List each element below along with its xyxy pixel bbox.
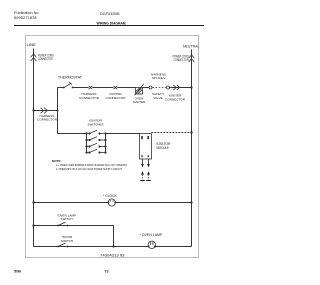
wire to oven igniter [117, 87, 135, 89]
svg-text:5/96: 5/96 [14, 270, 21, 274]
svg-text:CONNECTOR: CONNECTOR [165, 97, 186, 101]
header publication number [14, 11, 40, 20]
ignitor switches ladder left rail [86, 134, 88, 153]
junction lamp drop at door line [112, 245, 114, 247]
svg-text:1. LOWER OVEN BURNER & BROIL B: 1. LOWER OVEN BURNER & BROIL BURNER WILL… [56, 163, 127, 167]
svg-text:CONNECTOR: CONNECTOR [37, 118, 58, 122]
ignitor switch 3 [86, 143, 107, 147]
junction on LINE wire [32, 109, 34, 111]
ignitor switches label [88, 119, 104, 127]
svg-text:MODULE: MODULE [157, 146, 170, 150]
ignitor switch 4 [86, 149, 107, 153]
wire thermostat to harness connector [73, 87, 89, 89]
junction module line at neutral [190, 131, 192, 133]
diagram border [26, 36, 199, 258]
wire switches to ignitor module [106, 133, 140, 135]
wire LINE vertical left [33, 49, 35, 247]
spark electrode leads [143, 159, 149, 164]
svg-text:SPLICES: SPLICES [152, 76, 165, 80]
wire oven lamp switch line [34, 225, 114, 227]
spark gap arrows up [141, 171, 150, 174]
svg-text:THERMOSTAT: THERMOSTAT [58, 75, 82, 79]
note text [52, 159, 127, 171]
ignitor module box [140, 134, 152, 160]
wire module to neutral dashed [152, 132, 192, 134]
svg-text:SWITCHES: SWITCHES [88, 122, 104, 126]
svg-text:DGF332BB: DGF332BB [100, 12, 120, 16]
oven lamp symbol [148, 241, 157, 248]
junction clock line left [32, 201, 34, 203]
svg-text:SWITCH: SWITCH [61, 239, 73, 243]
spark gap arrows down [141, 164, 150, 167]
harness connector chevrons [41, 108, 48, 114]
wire to igniter connector [92, 87, 113, 89]
svg-text:VALVE: VALVE [153, 96, 163, 100]
ignitor switch 1 [86, 130, 107, 134]
svg-text:* OVEN LAMP: * OVEN LAMP [140, 233, 163, 237]
svg-text:NEUTRAL: NEUTRAL [183, 44, 200, 48]
ignitor switch 2 [86, 137, 107, 141]
wire lamp switch drop [113, 226, 115, 247]
electrode dashed stems [143, 175, 149, 180]
ignitor switches ladder right rail [105, 134, 107, 153]
svg-text:CONNECTOR: CONNECTOR [174, 58, 190, 62]
wire ignitor switch feed [58, 133, 87, 135]
igniter connector X [114, 86, 118, 89]
wire door switch line [34, 246, 192, 248]
svg-text:CONNECTOR: CONNECTOR [38, 57, 54, 61]
wire clock line [34, 202, 192, 204]
thermostat [58, 75, 83, 88]
junction lamp switch line at LINE wire [32, 224, 34, 226]
svg-text:SWITCH: SWITCH [60, 217, 72, 221]
svg-text:2. OPERATES ON A 120 VAC 60HZ: 2. OPERATES ON A 120 VAC 60HZ POWER SUPP… [56, 167, 122, 171]
svg-text:Publication No.: Publication No. [14, 11, 40, 15]
wire NEUTRAL vertical right [191, 50, 193, 247]
svg-text:LINE: LINE [27, 43, 37, 47]
svg-text:CONNECTOR: CONNECTOR [79, 96, 100, 100]
oven lamp switch [57, 213, 76, 226]
door switch [57, 235, 73, 247]
power cord connector right [189, 55, 195, 62]
svg-text:WIRING DIAGRAM: WIRING DIAGRAM [97, 21, 126, 26]
svg-text:5995271878: 5995271878 [14, 16, 37, 20]
svg-text:IGNITER: IGNITER [133, 100, 146, 104]
module terminal pins bottom [141, 155, 149, 157]
svg-text:CONNECTOR: CONNECTOR [106, 96, 127, 100]
clock symbol [108, 199, 117, 206]
junction oven line at neutral [190, 86, 192, 88]
burner ground bars [140, 180, 151, 182]
oven igniter hatched element [135, 84, 144, 96]
module terminal pins top [141, 136, 149, 139]
power cord connector left [31, 54, 37, 61]
svg-text:* CLOCK: * CLOCK [103, 194, 118, 198]
header rule [14, 25, 204, 27]
wire to right igniter connector [170, 87, 192, 89]
wire to splices [143, 87, 150, 89]
junction clock line right [190, 201, 192, 203]
svg-text:74304313 93: 74304313 93 [100, 254, 125, 258]
igniter connector chevrons right [173, 85, 179, 90]
harness connector X [89, 86, 93, 89]
wire harness branch [34, 110, 58, 112]
svg-text:73: 73 [105, 270, 109, 274]
harness splices / safety valve [149, 72, 170, 100]
wire vertical bus [57, 88, 59, 134]
ignitor module label [157, 142, 172, 150]
svg-text:NOTE:: NOTE: [52, 159, 62, 163]
junction bus harness branch [57, 110, 59, 112]
